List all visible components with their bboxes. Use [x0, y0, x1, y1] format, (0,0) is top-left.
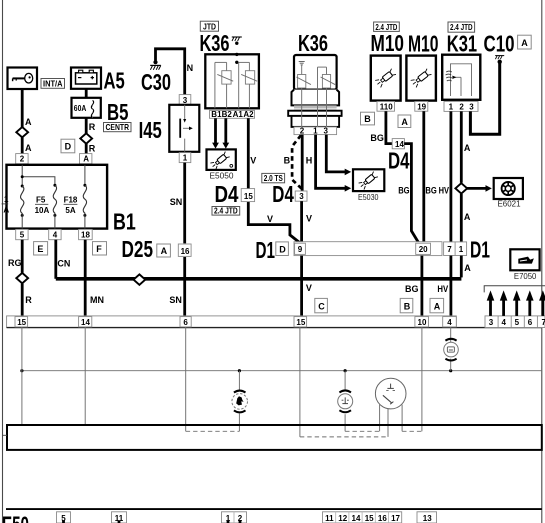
fuse F?: [21, 186, 24, 215]
svg-text:N: N: [187, 63, 194, 73]
arrow up pin 6: [528, 299, 531, 316]
svg-text:D4: D4: [272, 181, 294, 207]
pin box 15 (D4): [241, 189, 254, 202]
svg-text:M10: M10: [408, 31, 439, 57]
wire V D4/3 to D1/9: [300, 201, 303, 243]
svg-text:E50: E50: [2, 512, 29, 523]
wire B1/5 RG: [21, 240, 24, 273]
svg-text:V: V: [267, 214, 273, 224]
svg-text:15: 15: [17, 318, 26, 327]
svg-text:13: 13: [423, 514, 432, 523]
arrow up pin 5: [515, 299, 518, 316]
svg-text:BG: BG: [398, 185, 409, 195]
wire arrow K36/3 to E5030: [326, 135, 345, 172]
wire pin6 down: [185, 328, 187, 432]
connector diamond on key wire: [16, 127, 28, 137]
svg-text:3: 3: [489, 318, 494, 327]
svg-text:11: 11: [325, 514, 334, 523]
wire D1/20 BG to pin 10: [420, 256, 423, 317]
2.4 JTD tag (K31): [448, 22, 475, 32]
arrow up pin 3: [489, 299, 492, 316]
svg-text:A: A: [464, 263, 471, 273]
INT/A tag: [41, 78, 65, 88]
pin box 3 (I45): [179, 95, 191, 105]
svg-text:4: 4: [447, 318, 452, 327]
svg-text:110: 110: [380, 102, 393, 111]
fuse F18: [83, 185, 86, 215]
pin boxes 7 1: [444, 242, 467, 256]
svg-text:C: C: [318, 302, 325, 312]
svg-text:3: 3: [299, 192, 304, 201]
svg-text:1: 1: [313, 127, 318, 136]
fuse B5 box: [72, 98, 101, 118]
wire M10/19 BG to D1/20: [422, 111, 425, 243]
ground C10: [495, 56, 504, 64]
svg-text:1: 1: [459, 245, 464, 254]
fuse F5: [53, 185, 56, 215]
arrow up pin 4: [502, 299, 505, 316]
wire D1/7 HV to pin 4: [449, 256, 452, 317]
pin strip 11..17 (cut): [323, 512, 402, 523]
gauge coolant temp sensor: [375, 378, 406, 409]
wire B1/18 MN: [84, 240, 87, 317]
svg-text:12: 12: [338, 514, 347, 523]
svg-text:B5: B5: [107, 99, 129, 125]
page left border: [2, 0, 4, 523]
svg-text:INT/A: INT/A: [43, 78, 63, 88]
svg-text:10A: 10A: [35, 206, 50, 215]
svg-text:M10: M10: [371, 30, 405, 56]
svg-text:BG: BG: [405, 284, 419, 294]
svg-text:B1: B1: [113, 208, 136, 234]
svg-text:E7050: E7050: [514, 272, 537, 281]
wire K31/1 HV to D1/7: [449, 111, 452, 243]
K31 pin strip 1 2 3: [444, 101, 478, 111]
svg-text:15: 15: [296, 318, 305, 327]
variant box B: [400, 298, 413, 312]
svg-text:CN: CN: [57, 259, 70, 269]
pin box 5 (cut): [57, 512, 71, 523]
svg-text:6: 6: [528, 318, 533, 327]
svg-text:BG: BG: [425, 185, 436, 195]
pin box 110: [377, 102, 395, 112]
wire K31/2 A to D1/1: [460, 111, 463, 182]
svg-text:A: A: [25, 117, 32, 127]
pin box 14 (D4): [392, 139, 404, 149]
svg-text:A: A: [401, 117, 408, 127]
svg-text:16: 16: [378, 514, 387, 523]
variant box E: [34, 242, 48, 255]
svg-text:7: 7: [542, 318, 545, 327]
svg-text:D4: D4: [388, 147, 410, 173]
wire gauge2 leads: [344, 371, 346, 391]
2.4 JTD tag (M10): [374, 22, 400, 32]
svg-text:E: E: [37, 244, 43, 254]
glow plug M10 box: [371, 56, 401, 101]
internal ground: [299, 61, 305, 63]
pin box 16 (D25): [178, 244, 191, 256]
variant box B: [361, 112, 375, 125]
svg-text:D25: D25: [122, 236, 154, 262]
svg-text:C10: C10: [484, 31, 515, 57]
variant box C: [315, 298, 328, 312]
pin box 10: [415, 317, 429, 327]
svg-text:14: 14: [81, 318, 90, 327]
CENTR tag: [104, 122, 132, 132]
wire arrow to E6021: [467, 187, 486, 190]
dashed wire B (K36/2 variant): [292, 135, 302, 188]
svg-text:B1: B1: [211, 110, 222, 119]
svg-text:14: 14: [352, 514, 361, 523]
svg-text:D: D: [279, 244, 286, 254]
svg-text:60A: 60A: [74, 104, 87, 113]
tick to border: [3, 434, 8, 436]
wire pin14 down: [84, 328, 86, 425]
pin box 5: [16, 229, 28, 239]
svg-text:A: A: [521, 38, 528, 48]
gauge fuel pump sender: [232, 391, 248, 413]
svg-text:V: V: [306, 283, 312, 293]
connector strip D1: [294, 242, 442, 256]
connector diamond on battery wire: [80, 133, 92, 143]
switch I45 box: [169, 105, 199, 152]
svg-text:20: 20: [419, 245, 428, 254]
wire arrow K36/1 to E5030: [316, 135, 345, 189]
svg-text:A: A: [434, 302, 441, 312]
svg-text:D1: D1: [256, 237, 276, 263]
variant box A (D25): [157, 244, 171, 257]
relay K36 (physical) body: [288, 55, 341, 127]
diamond on bus: [134, 274, 146, 284]
svg-text:HV: HV: [437, 284, 448, 294]
svg-text:7: 7: [447, 245, 452, 254]
lower connector strip: [7, 316, 457, 328]
svg-text:A5: A5: [104, 68, 125, 94]
K36 internals: [214, 62, 216, 108]
svg-text:2.4 JTD: 2.4 JTD: [214, 206, 238, 216]
svg-text:CENTR: CENTR: [106, 122, 130, 132]
2.4 JTD tag: [212, 206, 240, 216]
arrow up pin 7: [542, 299, 545, 316]
pin box 3 (D4): [295, 191, 307, 201]
glow plug M10 box (second): [406, 56, 436, 101]
wire I45/1 SN down to D25/16: [183, 163, 186, 244]
pin box 9: [295, 243, 306, 254]
pin box 20: [416, 243, 431, 254]
svg-text:2: 2: [459, 103, 464, 112]
2.0 TS tag: [262, 173, 285, 183]
svg-text:B: B: [284, 156, 291, 166]
pin box 15 (mid): [294, 317, 307, 327]
svg-text:5A: 5A: [65, 206, 75, 215]
svg-text:A: A: [161, 246, 168, 256]
wire I45/3 to ground: [156, 49, 185, 95]
node dots: [20, 369, 23, 372]
svg-text:A2: A2: [243, 110, 254, 119]
relay K36 (JTD) box: [205, 54, 259, 108]
svg-text:C30: C30: [141, 69, 171, 95]
wire gauge1 leads: [238, 371, 240, 390]
svg-text:R: R: [25, 295, 32, 305]
wire SN below D25 to pin 6: [183, 257, 186, 316]
svg-text:5: 5: [515, 318, 520, 327]
svg-text:D1: D1: [470, 237, 490, 263]
pin box 6: [180, 317, 191, 327]
pin box 4: [49, 229, 61, 239]
pin box 15: [15, 317, 28, 327]
battery A5 box: [71, 68, 101, 89]
svg-text:B2: B2: [222, 110, 233, 119]
wire M10/110 to D4/14: [386, 111, 392, 143]
svg-text:B: B: [404, 302, 411, 312]
svg-text:SN: SN: [169, 295, 182, 305]
svg-text:A: A: [83, 155, 89, 164]
variant box F: [93, 242, 107, 255]
svg-text:A: A: [464, 143, 471, 153]
svg-text:19: 19: [417, 102, 426, 111]
svg-text:V: V: [250, 156, 256, 166]
svg-text:15: 15: [365, 514, 374, 523]
svg-text:16: 16: [181, 247, 190, 256]
svg-text:2: 2: [20, 155, 25, 164]
ground C30: [150, 60, 161, 70]
svg-text:RG: RG: [8, 258, 22, 268]
wire pin15mid down: [299, 328, 301, 437]
diamond junction: [455, 183, 467, 193]
wire B1/4 CN + bus corner: [54, 240, 57, 279]
svg-text:K36: K36: [298, 30, 328, 56]
pin boxes 1 2 (cut): [222, 512, 247, 523]
ground (K36 relay): [232, 37, 242, 64]
svg-text:H: H: [306, 156, 313, 166]
svg-text:A: A: [464, 212, 471, 222]
svg-text:A: A: [3, 206, 9, 215]
variant box D: [61, 139, 75, 153]
svg-text:R: R: [89, 122, 96, 132]
svg-text:3: 3: [469, 103, 474, 112]
K36 pin strip B1 B2 A1 A2: [210, 110, 255, 118]
svg-text:9: 9: [298, 245, 303, 254]
wire pin4 to gauge4: [450, 328, 452, 343]
svg-text:V: V: [306, 214, 312, 224]
svg-text:2: 2: [300, 127, 305, 136]
svg-text:E5050: E5050: [210, 172, 235, 181]
variant box D (D1): [276, 242, 289, 256]
pin box 18: [79, 229, 93, 239]
dashed connector pockets: [186, 430, 240, 432]
relay K31 box: [442, 55, 480, 100]
wire K36/A2 V to D1/9: [248, 118, 301, 243]
svg-text:HV: HV: [439, 185, 449, 195]
wire battery to fuse: [85, 89, 88, 98]
variant box A (C10): [518, 35, 532, 49]
svg-text:D: D: [65, 142, 72, 152]
node line (sensor common): [22, 370, 542, 372]
wire pin15 down: [21, 328, 23, 425]
variant box A: [398, 115, 411, 128]
svg-text:3: 3: [183, 96, 188, 105]
wire arrow K36/B2 to E5050: [224, 118, 227, 143]
svg-text:10: 10: [418, 318, 427, 327]
sensor E6021: [494, 178, 523, 199]
wire arrow K36/B1 to E5050: [214, 118, 217, 143]
svg-text:4: 4: [53, 231, 58, 240]
svg-text:1: 1: [449, 103, 454, 112]
wire gauge3 leads: [379, 405, 381, 432]
page right border: [541, 0, 543, 523]
svg-text:K36: K36: [200, 30, 230, 56]
svg-text:5: 5: [20, 231, 25, 240]
pin box 2: [16, 154, 28, 164]
svg-text:6: 6: [183, 318, 188, 327]
svg-text:F18: F18: [64, 196, 78, 205]
JTD tag: [200, 21, 218, 31]
diamond on RG wire: [16, 273, 28, 283]
pin box 19: [415, 102, 428, 112]
svg-text:I45: I45: [139, 117, 162, 143]
svg-text:SN: SN: [170, 197, 183, 207]
wire key to B1 pin2: [21, 89, 24, 127]
svg-text:E6021: E6021: [498, 199, 522, 208]
svg-text:R: R: [89, 143, 96, 153]
fuse box B1: [7, 165, 108, 229]
wire pin10 down: [421, 328, 423, 432]
svg-text:4: 4: [502, 318, 507, 327]
glow plugs E5030: [353, 169, 384, 191]
variant box A: [430, 298, 444, 312]
svg-text:BG: BG: [370, 133, 384, 143]
B1 internal wiring: [21, 165, 23, 177]
wire D1/1 A to bus: [460, 256, 463, 278]
engine junction box: [7, 425, 542, 450]
svg-text:15: 15: [244, 192, 253, 201]
svg-text:K31: K31: [447, 31, 477, 57]
glow plug unit E5050: [207, 149, 236, 170]
lower bus line: [6, 508, 542, 510]
pin box 1 (I45): [179, 153, 191, 163]
svg-text:B: B: [364, 114, 371, 124]
svg-text:1: 1: [183, 154, 188, 163]
pin box 4: [443, 317, 457, 327]
bracket over arrows: [484, 286, 545, 293]
svg-text:A: A: [25, 143, 32, 153]
lamp E7050: [510, 249, 539, 270]
K36 pin strip 2 1 3: [294, 127, 337, 135]
ignition switch (key) box: [8, 68, 38, 90]
pin box 14: [79, 317, 92, 327]
pin box 11 (cut): [112, 512, 127, 523]
wire C10 ground to K31/3: [470, 63, 499, 135]
svg-text:F5: F5: [36, 196, 46, 205]
wire H K36/2 to D4/3: [301, 135, 304, 191]
svg-text:F: F: [96, 244, 102, 254]
svg-text:MN: MN: [90, 295, 104, 305]
svg-text:17: 17: [391, 514, 400, 523]
pin box 13 (cut): [417, 512, 437, 523]
svg-text:E5030: E5030: [358, 193, 379, 202]
wire D4/14 BG to D1/20: [404, 144, 419, 244]
svg-text:1: 1: [4, 195, 9, 204]
pin box A: [80, 154, 92, 164]
gauge fuel level sender: [338, 390, 353, 412]
pin boxes 3 4 5 6 7: [485, 316, 545, 328]
svg-text:A1: A1: [233, 110, 244, 119]
bus wire to D1: [56, 277, 462, 281]
wire D1/9 V to pin 15: [300, 256, 303, 317]
svg-text:3: 3: [324, 127, 329, 136]
svg-text:D4: D4: [215, 181, 239, 207]
svg-text:18: 18: [81, 231, 90, 240]
gauge glow plug warning sender: [444, 339, 459, 361]
wire fuse to B1 pinA: [85, 118, 88, 134]
